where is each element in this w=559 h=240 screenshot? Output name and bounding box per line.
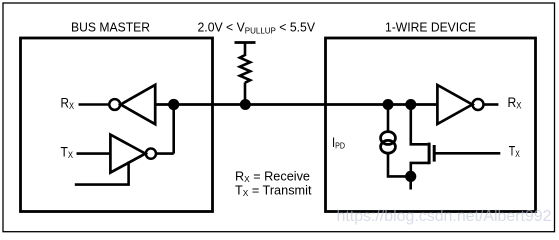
node A junction on bus (168, 99, 179, 110)
wire node B down to current source (387, 105, 390, 132)
wire (244, 83, 247, 105)
op-amp buffer RX (1-wire device, points right) (437, 85, 472, 124)
op-amp driver TX (bus master, points right) (110, 135, 145, 173)
node B junction (1-wire device, to current source) (383, 99, 394, 110)
wire Q1 source (411, 163, 429, 177)
wire: main 1-wire bus (155, 103, 437, 106)
1-wire device box (326, 38, 536, 212)
junction pullup-to-bus (240, 99, 251, 110)
transistor Q1 mosfet drain wire (411, 105, 428, 145)
wire RX output (484, 103, 499, 106)
wire current source down (388, 154, 411, 177)
node C junction (1-wire device, to mosfet drain) (405, 99, 416, 110)
wire ground stub (409, 176, 412, 189)
inverter bubble (bus master TX output) (146, 149, 156, 159)
svg-text:https://blog.csdn.net/Albert99: https://blog.csdn.net/Albert992 (337, 208, 552, 225)
transistor Q1 channel bar (428, 143, 431, 165)
node D junction (source / current source) (405, 171, 416, 182)
power rail T-bar VPULLUP (235, 41, 256, 44)
bus master box (21, 38, 213, 212)
current source IPD (two overlapping circles) (381, 132, 396, 145)
wire node A down to TX driver output (172, 105, 175, 154)
wire TX driver enable stub (75, 162, 129, 185)
op-amp buffer RX (bus master, points left) (121, 85, 156, 124)
transistor Q1 gate bar (433, 145, 436, 162)
wire Q1 gate to TX pin (434, 152, 500, 155)
svg-text:BUS MASTER: BUS MASTER (71, 19, 150, 34)
wire (244, 43, 247, 57)
wire RX input (79, 103, 111, 106)
inverter bubble (bus master RX) (109, 99, 120, 110)
inverter bubble (1-wire RX output) (473, 99, 484, 110)
svg-text:1-WIRE DEVICE: 1-WIRE DEVICE (385, 19, 476, 34)
resistor RPULLUP zigzag (240, 55, 250, 83)
wire TX input (77, 152, 111, 155)
wire TX output up to node A (156, 152, 174, 155)
